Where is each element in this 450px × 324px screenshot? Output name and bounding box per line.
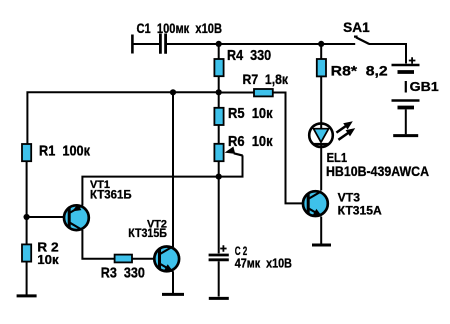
svg-text:R8* 8,2: R8* 8,2 — [331, 63, 388, 79]
svg-text:R1 100к: R1 100к — [39, 144, 91, 160]
svg-text:R4 330: R4 330 — [227, 48, 271, 64]
svg-text:R6 10к: R6 10к — [228, 134, 273, 150]
svg-text:КТ315А: КТ315А — [338, 203, 382, 217]
svg-text:R5 10к: R5 10к — [228, 106, 273, 122]
svg-text:47мк х10В: 47мк х10В — [235, 256, 292, 271]
svg-text:SA1: SA1 — [343, 20, 370, 35]
svg-text:HB10B-439AWCA: HB10B-439AWCA — [326, 163, 429, 179]
svg-text:КТ315Б: КТ315Б — [128, 226, 167, 240]
svg-text:КТ361Б: КТ361Б — [90, 187, 132, 201]
svg-text:10к: 10к — [37, 252, 59, 267]
svg-text:R3 330: R3 330 — [101, 265, 145, 281]
svg-text:C1 100мк х10В: C1 100мк х10В — [137, 21, 223, 36]
svg-text:GB1: GB1 — [410, 80, 439, 94]
svg-text:R7 1,8к: R7 1,8к — [243, 72, 289, 87]
